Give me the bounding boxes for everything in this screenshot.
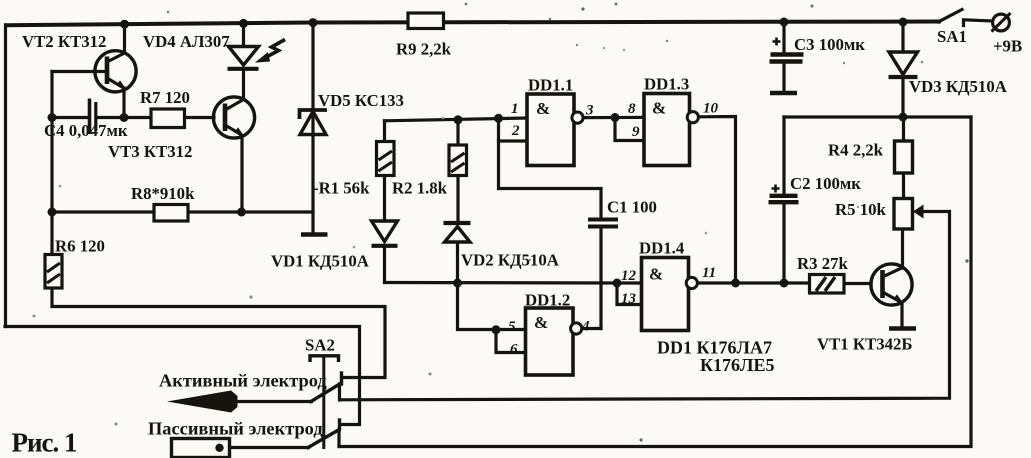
capacitor C3 common bar: [770, 91, 797, 96]
diode VD4 emission arrow: [257, 40, 286, 63]
zener VD5: [300, 110, 328, 135]
wire C4 left lead: [52, 116, 87, 119]
wire R5 bottom to VT1 collector: [901, 229, 904, 268]
wire active electrode lead: [234, 400, 312, 403]
svg-text:SA1: SA1: [937, 27, 967, 46]
capacitor C2 polarized: [769, 185, 799, 203]
svg-text:6: 6: [510, 342, 518, 358]
wire VT2 collector to rail: [123, 24, 126, 52]
resistor R3: [810, 275, 845, 294]
diode VD2: [444, 223, 471, 242]
wire R1 bottom to VD1: [383, 176, 386, 222]
gate DD1.4: [642, 258, 698, 331]
wire C2 top lead: [782, 117, 785, 193]
capacitor C1: [588, 220, 618, 227]
svg-text:C1 100: C1 100: [607, 198, 657, 217]
svg-text:12: 12: [621, 268, 637, 284]
svg-text:R2 1.8k: R2 1.8k: [392, 179, 448, 198]
svg-text:&: &: [652, 99, 666, 118]
svg-text:DD1.1: DD1.1: [528, 76, 573, 95]
svg-text:&: &: [536, 99, 550, 118]
svg-text:3: 3: [585, 103, 594, 119]
wire SA2 upper blade riser: [338, 384, 341, 400]
wire C3 top lead: [782, 22, 785, 52]
svg-text:C3 100мк: C3 100мк: [794, 35, 865, 54]
resistor R5: [894, 199, 913, 230]
svg-text:C4 0,047мк: C4 0,047мк: [44, 121, 128, 140]
svg-text:R4 2,2k: R4 2,2k: [828, 141, 884, 160]
svg-text:13: 13: [621, 291, 637, 307]
svg-text:8: 8: [628, 101, 636, 117]
svg-text:VT3 КТ312: VT3 КТ312: [108, 142, 192, 161]
transistor VT1 emitter common bar: [889, 326, 916, 331]
wire pin2 branch vertical: [499, 118, 602, 218]
svg-text:&: &: [649, 265, 663, 284]
svg-text:R5 10k: R5 10k: [835, 200, 886, 219]
switch SA1 blade: [939, 10, 963, 22]
wire VD5 vertical: [311, 23, 314, 232]
svg-text:1: 1: [511, 101, 519, 117]
wire R1 top lead: [383, 121, 386, 142]
svg-text:10: 10: [703, 101, 719, 117]
wire VD1 bottom to mid wire: [383, 246, 386, 283]
wire DD1.2 output pin4: [582, 327, 602, 330]
wire DD1.2 inputs branch: [458, 283, 526, 330]
wire VD3 top to rail: [901, 22, 904, 52]
wire VD2 bottom to mid wire: [456, 243, 459, 284]
resistor R7: [151, 109, 185, 128]
wire R2 bottom to VD2: [456, 176, 459, 224]
svg-text:Пассивный электрод: Пассивный электрод: [148, 419, 323, 439]
wire mid signal rail: [385, 281, 618, 285]
switch SA2 actuator T-bar: [310, 356, 339, 449]
switch SA1 fixed contact: [964, 20, 993, 26]
wire left rail vertical: [4, 25, 7, 327]
svg-text:VT1 КТ342Б: VT1 КТ342Б: [817, 335, 913, 354]
wire C4 right lead to VT2 emitter node: [98, 116, 124, 119]
svg-text:VD1 КД510А: VD1 КД510А: [271, 252, 369, 271]
wire outer bottom-left path to SA2 lower contact: [5, 327, 360, 425]
svg-text:5: 5: [508, 319, 516, 335]
wire SA2 upper contact tick: [340, 373, 343, 384]
passive electrode plate: [172, 439, 230, 458]
wire top supply rail: [6, 22, 939, 26]
gate DD1.3: [644, 94, 698, 166]
wire R5 wiper feedback: [340, 212, 950, 400]
svg-text:R3 27k: R3 27k: [797, 254, 848, 273]
wire pin9 branch: [615, 118, 644, 141]
svg-text:+9В: +9В: [993, 37, 1022, 56]
wire VT2 emitter down: [122, 88, 125, 118]
svg-text:VT2 КТ312: VT2 КТ312: [22, 32, 106, 51]
gate DD1.1: [527, 94, 583, 166]
transistor VT1: [871, 264, 912, 305]
wire C1 bottom to DD1.2 output: [599, 229, 602, 329]
svg-text:2: 2: [511, 123, 520, 139]
wire VD3 bottom to node: [901, 78, 904, 117]
wire R3 to VT1 base: [844, 282, 871, 285]
wire VT1 emitter down: [900, 302, 903, 328]
diode VD3: [889, 52, 918, 77]
wire bottom outer rail: [340, 445, 972, 448]
wire VD4 top to rail: [242, 24, 245, 47]
svg-text:VD4 АЛ307: VD4 АЛ307: [143, 32, 230, 51]
wire VT2 base horizontal: [52, 70, 106, 73]
wire SA2 lower contact tick: [338, 420, 341, 430]
wire VT3 emitter down to R8 rail: [240, 136, 243, 212]
svg-text:-R1 56k: -R1 56k: [313, 179, 370, 198]
svg-text:VD2 КД510А: VD2 КД510А: [461, 251, 559, 270]
svg-text:9: 9: [632, 124, 640, 140]
svg-text:DD1.2: DD1.2: [525, 291, 570, 310]
wire C3 bottom lead: [782, 64, 785, 91]
wire pin13 branch: [617, 283, 642, 305]
resistor R6: [45, 255, 62, 289]
capacitor C4: [90, 99, 96, 135]
wire R4 to R5: [902, 173, 905, 199]
svg-text:C2 100мк: C2 100мк: [790, 174, 861, 193]
wire passive electrode lead: [229, 446, 309, 449]
wire pin2 stub: [499, 139, 528, 142]
wire R2 top lead: [456, 120, 459, 145]
resistor R2: [449, 145, 467, 176]
svg-text:11: 11: [702, 265, 716, 281]
resistor R5 wiper arrow: [913, 205, 924, 219]
wire oscillator input rail (pin 1): [385, 118, 528, 121]
svg-text:R9 2,2k: R9 2,2k: [396, 40, 452, 59]
svg-text:DD1.4: DD1.4: [639, 239, 685, 258]
wire DD1.1 output pin3: [583, 116, 644, 119]
wire SA2 lower blade riser: [337, 430, 340, 447]
svg-text:R6 120: R6 120: [55, 237, 105, 256]
active electrode arrow: [167, 391, 238, 413]
wire right top sub-rail: [784, 115, 971, 118]
capacitor C3 polarized: [770, 38, 804, 62]
diode VD4 LED: [228, 47, 259, 69]
wire SA2 upper blade: [311, 384, 341, 402]
svg-text:R7 120: R7 120: [140, 88, 190, 107]
zener VD5 common bar: [301, 232, 328, 237]
svg-text:DD1.3: DD1.3: [644, 75, 689, 94]
wire SA2 lower blade: [308, 430, 339, 448]
svg-text:Активный электрод: Активный электрод: [159, 371, 327, 391]
resistor R8: [154, 205, 188, 222]
wire R4 top lead: [902, 117, 905, 141]
wire pin6 branch: [496, 330, 526, 353]
wire R6 bottom inner path to SA2 upper contact: [52, 288, 385, 378]
diode VD1: [372, 221, 398, 246]
svg-text:Рис. 1: Рис. 1: [12, 428, 78, 458]
wire VT2 base net vertical: [50, 72, 53, 255]
svg-text:К176ЛЕ5: К176ЛЕ5: [700, 355, 774, 375]
transistor VT3: [213, 97, 254, 138]
svg-text:R8*910k: R8*910k: [131, 184, 195, 203]
wire pin12 stub: [617, 281, 642, 284]
resistor R4: [895, 141, 913, 173]
wire node to R7: [124, 116, 151, 119]
gate DD1.2: [526, 308, 582, 375]
wire VT3 collector up to VD4: [242, 70, 245, 99]
wire R8 rail: [52, 210, 313, 213]
svg-text:VD3 КД510А: VD3 КД510А: [909, 77, 1007, 96]
svg-text:SA2: SA2: [305, 336, 335, 355]
svg-text:4: 4: [581, 319, 590, 335]
resistor R1: [377, 142, 395, 176]
svg-text:VD5 КС133: VD5 КС133: [318, 91, 404, 110]
transistor VT2: [95, 51, 136, 92]
resistor R9: [408, 13, 444, 29]
switch SA1 terminal circle: [992, 13, 1011, 32]
svg-text:&: &: [534, 313, 548, 332]
wire C2 bottom lead: [782, 204, 785, 283]
wire DD1.4 output pin11 to R3: [697, 281, 810, 284]
wire R7 to VT3 base: [184, 116, 214, 119]
wire right outer vertical: [969, 117, 972, 446]
wire DD1.3 output pin10: [699, 117, 736, 284]
